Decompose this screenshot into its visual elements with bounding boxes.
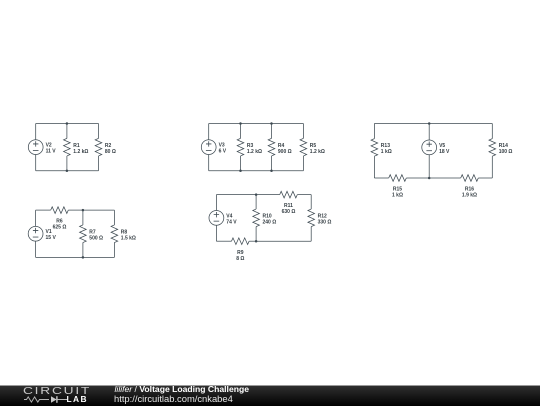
wire xyxy=(428,155,430,178)
CircuitLab logo: resistor + diode glyph xyxy=(24,395,68,404)
node junction xyxy=(255,193,258,196)
wire xyxy=(310,227,312,242)
wire xyxy=(406,177,429,179)
svg-text:80 Ω: 80 Ω xyxy=(105,149,116,155)
wire xyxy=(36,170,99,172)
voltage source V5 18 V xyxy=(422,140,450,155)
resistor R4 900 Ω xyxy=(268,138,291,156)
wire xyxy=(249,240,256,242)
node junction xyxy=(239,170,242,173)
node junction xyxy=(270,170,273,173)
node junction xyxy=(82,209,85,212)
wire xyxy=(429,177,461,179)
resistor R2 80 Ω xyxy=(95,138,116,156)
svg-text:1.9 kΩ: 1.9 kΩ xyxy=(462,193,477,199)
wire xyxy=(297,194,311,196)
wire xyxy=(373,156,375,178)
wire xyxy=(66,156,68,171)
wire xyxy=(35,124,37,140)
svg-text:1.2 kΩ: 1.2 kΩ xyxy=(310,149,325,155)
resistor R12 330 Ω xyxy=(308,209,331,227)
CircuitLab logo: CIRCUIT wordmark xyxy=(23,387,91,396)
wire xyxy=(208,155,210,171)
wire xyxy=(240,124,242,139)
wire xyxy=(478,177,492,179)
wire xyxy=(271,124,273,139)
svg-text:630 Ω: 630 Ω xyxy=(282,209,296,215)
wire xyxy=(216,194,279,196)
wire xyxy=(491,156,493,178)
resistor R7 500 Ω xyxy=(80,225,103,243)
wire xyxy=(36,123,99,125)
wire xyxy=(271,156,273,171)
svg-text:1.5 kΩ: 1.5 kΩ xyxy=(121,235,136,241)
resistor R11 630 Ω xyxy=(280,191,298,215)
voltage source V2 11 V xyxy=(28,140,56,155)
wire xyxy=(373,124,375,139)
node junction xyxy=(82,256,85,259)
resistor R9 8 Ω xyxy=(232,238,250,262)
resistor R1 1.2 kΩ xyxy=(64,138,89,156)
wire xyxy=(256,240,311,242)
node junction xyxy=(428,177,431,180)
resistor R8 1.5 kΩ xyxy=(111,225,136,243)
node junction xyxy=(428,122,431,125)
node junction xyxy=(66,122,69,125)
CircuitLab logo: LAB wordmark xyxy=(67,395,88,404)
wire xyxy=(82,243,84,258)
svg-text:625 Ω: 625 Ω xyxy=(53,225,67,231)
wire xyxy=(98,156,100,171)
node junction xyxy=(270,122,273,125)
svg-text:240 Ω: 240 Ω xyxy=(263,219,277,225)
wire xyxy=(255,195,257,209)
wire xyxy=(66,124,68,139)
wire xyxy=(255,227,257,242)
wire xyxy=(374,123,492,125)
wire xyxy=(491,124,493,139)
wire xyxy=(208,124,210,140)
wire xyxy=(36,256,115,258)
resistor R14 100 Ω xyxy=(489,139,512,157)
wire xyxy=(98,124,100,139)
wire xyxy=(428,124,430,141)
voltage source V1 15 V xyxy=(28,226,56,241)
svg-text:74 V: 74 V xyxy=(226,219,237,225)
voltage source V4 74 V xyxy=(209,210,237,225)
svg-text:1 kΩ: 1 kΩ xyxy=(392,193,403,199)
svg-text:11 V: 11 V xyxy=(46,149,57,155)
footer url line xyxy=(114,394,233,404)
wire xyxy=(209,170,304,172)
wire xyxy=(302,124,304,139)
wire xyxy=(216,240,231,242)
wire xyxy=(209,123,304,125)
node junction xyxy=(239,122,242,125)
resistor R10 240 Ω xyxy=(253,209,276,227)
wire xyxy=(113,210,115,225)
wire xyxy=(215,225,217,241)
resistor R16 1.9 kΩ xyxy=(461,175,479,199)
svg-text:1.2 kΩ: 1.2 kΩ xyxy=(73,149,88,155)
svg-text:18 V: 18 V xyxy=(439,149,450,155)
wire xyxy=(35,155,37,171)
svg-text:330 Ω: 330 Ω xyxy=(318,219,332,225)
wire xyxy=(302,156,304,171)
node junction xyxy=(66,170,69,173)
svg-text:8 Ω: 8 Ω xyxy=(236,256,244,262)
wire xyxy=(36,209,51,211)
wire xyxy=(35,241,37,257)
node junction xyxy=(255,240,258,243)
wire xyxy=(374,177,388,179)
wire xyxy=(240,156,242,171)
wire xyxy=(83,209,115,211)
svg-text:1 kΩ: 1 kΩ xyxy=(381,149,392,155)
svg-text:6 V: 6 V xyxy=(219,149,227,155)
svg-text:1.2 kΩ: 1.2 kΩ xyxy=(247,149,262,155)
resistor R6 625 Ω xyxy=(51,207,69,231)
svg-text:900 Ω: 900 Ω xyxy=(278,149,292,155)
wire xyxy=(310,195,312,209)
wire xyxy=(35,210,37,226)
wire xyxy=(82,210,84,225)
wire xyxy=(215,195,217,211)
footer title line xyxy=(115,385,250,395)
resistor R5 1.2 kΩ xyxy=(300,138,325,156)
voltage source V3 6 V xyxy=(201,140,226,155)
resistor R3 1.2 kΩ xyxy=(237,138,262,156)
wire xyxy=(68,209,83,211)
svg-text:100 Ω: 100 Ω xyxy=(499,149,513,155)
resistor R15 1 kΩ xyxy=(389,175,407,199)
svg-text:500 Ω: 500 Ω xyxy=(89,235,103,241)
svg-text:15 V: 15 V xyxy=(46,235,57,241)
wire xyxy=(113,243,115,258)
resistor R13 1 kΩ xyxy=(371,139,392,157)
